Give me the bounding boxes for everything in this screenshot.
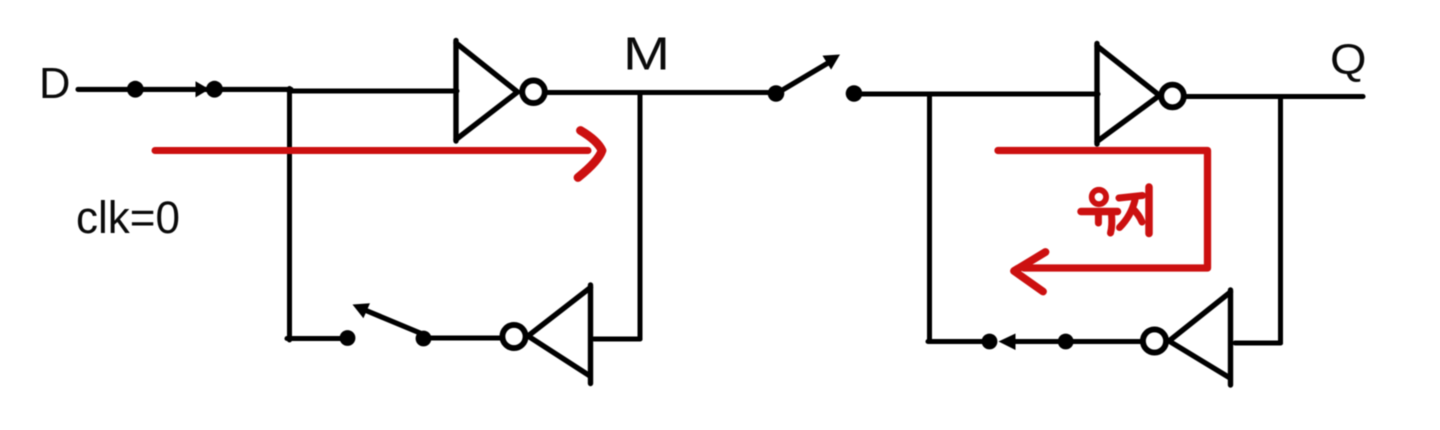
svg-text:M: M [623,28,670,80]
svg-text:clk=0: clk=0 [76,192,180,243]
wire: U3 output through node Q [1186,94,1363,99]
svg-text:D: D [39,60,70,108]
switch S3 arm arrowhead [353,303,371,318]
switch S1 contact dot (left) [127,81,144,98]
wire: U1 output through node M to switch S2 [547,90,769,95]
wire: bottom of slave loop (left) [928,339,982,344]
switch S3 contact dot (left) [340,330,356,346]
switch S4 closed-state arrowhead (points left) [999,334,1016,351]
inverter U4 output bubble [1143,329,1166,352]
inverter U2 output bubble [502,325,525,348]
inverter U1 output bubble [522,81,545,104]
wire: U4 input from node Q vertical [1235,340,1281,345]
wire: D input to node A [78,87,291,92]
inverter U2 (points left) [528,285,591,384]
wire: slave loop right vertical (node Q) [1278,97,1283,344]
switch S2 open arm [783,63,829,90]
wire: master loop right vertical (node M) [638,93,643,340]
switch S2 arm arrowhead [823,55,841,70]
switch S3 open arm [366,311,420,334]
switch S2 contact dot (right) [846,85,863,102]
wire: U2 input from node M vertical [594,336,640,341]
red hold loop (top, right side, bottom with arrowhead) [998,151,1208,292]
switch S1 closed-state arrowhead [196,81,210,97]
inverter U3 output bubble [1161,85,1184,108]
wire: node A to inverter U1 input [289,89,457,94]
inverter U1 [456,41,518,142]
wire: master loop left vertical (node A) [287,89,292,341]
wire: S2 through node B to inverter U3 input [854,91,1098,96]
wire: S3 to inverter U2 bubble [431,335,501,340]
switch S2 contact dot (left) [768,85,785,102]
inverter U4 (points left) [1169,290,1231,385]
switch S1 contact dot (right) [206,81,223,98]
label "유지" (hold), hand-drawn strokes [1081,187,1149,234]
switch S4 contact dot (left) [982,334,998,350]
switch S3 contact dot (right) [416,331,432,347]
switch S4 contact dot (right) [1058,334,1074,350]
wire: bottom of master loop (left) [287,336,340,341]
wire: S4 to inverter U4 bubble [1010,339,1142,344]
inverter U3 [1097,44,1160,145]
svg-text:Q: Q [1330,36,1367,84]
red arrow: D-to-M signal flow [155,131,602,178]
wire: slave loop left vertical (node B) [927,94,932,342]
